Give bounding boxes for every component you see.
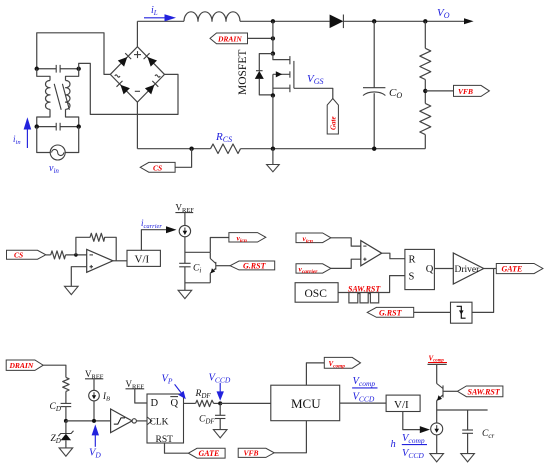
tag CS top (to sense rail) bbox=[140, 162, 175, 172]
wire V/I 2 to current source arrow bbox=[403, 412, 421, 430]
wire CX1 right node to bridge right vertex (under bridge) bbox=[79, 63, 178, 114]
tag Vcomp (output top) bbox=[324, 357, 360, 369]
node divider top bbox=[423, 19, 427, 23]
node mosfet source bbox=[271, 93, 275, 97]
resistor RCS bbox=[211, 144, 241, 154]
wire AC top loop to bridge left vertex bbox=[37, 33, 111, 75]
wire Vcomp rail to transistor bbox=[436, 364, 438, 383]
block RS latch bbox=[405, 249, 435, 289]
driver buffer bbox=[453, 253, 483, 284]
diode D boost bbox=[330, 15, 344, 29]
tag CS middle (input) bbox=[7, 250, 46, 259]
svg-text:CS: CS bbox=[14, 251, 23, 260]
svg-text:D: D bbox=[151, 398, 159, 409]
bridge diode top-right bbox=[144, 53, 157, 66]
node drain tag junction bbox=[271, 36, 275, 40]
bridge diode bottom-right bbox=[145, 81, 158, 95]
wire vcarrier to comparator plus bbox=[331, 259, 361, 268]
svg-text:VFB: VFB bbox=[244, 449, 259, 458]
svg-text:V/I: V/I bbox=[135, 254, 150, 266]
AC source vin bbox=[50, 145, 65, 160]
wire gate to one-shot bbox=[472, 269, 494, 313]
tag SAW.RST (input) bbox=[457, 386, 503, 397]
wire VREF to D input bbox=[135, 389, 147, 403]
wire DRAIN tag to drain bbox=[248, 37, 273, 39]
svg-text:Driver: Driver bbox=[455, 265, 481, 275]
capacitor CX1 (X-cap top) bbox=[37, 65, 79, 73]
node source bottom bbox=[271, 147, 275, 151]
node divider mid bbox=[423, 89, 427, 93]
wire Q to driver bbox=[434, 268, 453, 270]
wire V/I up to icarrier arrow bbox=[141, 230, 167, 251]
svg-text:SAW.RST: SAW.RST bbox=[348, 284, 381, 293]
transistor Q saw reset bbox=[437, 384, 443, 423]
wire Qbar to RDF bbox=[184, 402, 196, 404]
ground current source bbox=[430, 454, 444, 462]
node CO top bbox=[372, 19, 376, 23]
rail VREF (D input) bbox=[126, 379, 145, 391]
arrowhead VO bbox=[464, 18, 474, 24]
mosfet M channel and gate bbox=[273, 54, 294, 96]
wire VD node rail bbox=[66, 420, 111, 422]
svg-text:MCU: MCU bbox=[291, 396, 321, 411]
rail VREF (IB) bbox=[85, 369, 104, 381]
node left of CX2 bbox=[35, 124, 39, 128]
node VD bbox=[92, 419, 96, 423]
node CO bottom bbox=[372, 147, 376, 151]
zener ZD bbox=[58, 421, 73, 448]
tag GATE (output) bbox=[496, 264, 543, 274]
ground ZD bbox=[59, 448, 73, 456]
wire op-amp plus input to ground bbox=[71, 267, 86, 287]
tag DRAIN bottom (input) bbox=[6, 360, 43, 370]
transistor Q discharge (reset) bbox=[210, 252, 216, 282]
bridge tilde right bbox=[155, 75, 160, 77]
node drain top bbox=[271, 19, 275, 23]
node right of CX2 bbox=[77, 124, 81, 128]
svg-text:Gate: Gate bbox=[330, 116, 338, 130]
resistor R lower divider bbox=[420, 103, 431, 148]
wire RD to CD bbox=[65, 391, 67, 403]
bridge plus mark bbox=[134, 51, 141, 58]
wire OSC to S input bbox=[338, 276, 405, 293]
wire vicn branch bbox=[210, 238, 229, 253]
wire CS stub bbox=[175, 149, 192, 168]
node right of CX1 bbox=[77, 67, 81, 71]
wire Ccr rail bbox=[437, 409, 488, 411]
svg-text:G.RST: G.RST bbox=[379, 308, 403, 317]
tag vcarrier bbox=[296, 264, 331, 275]
capacitor CO bbox=[363, 21, 385, 148]
svg-text:GATE: GATE bbox=[502, 265, 523, 274]
node VD left bbox=[64, 419, 68, 423]
wire CX2 to AC source bbox=[37, 127, 79, 153]
wire bridge top vertex up bbox=[136, 21, 138, 46]
node feedback junction bbox=[74, 253, 78, 257]
arrow VD bbox=[92, 424, 99, 446]
svg-text:CS: CS bbox=[153, 163, 162, 172]
wire RDF to node bbox=[214, 402, 221, 404]
capacitor Ccr bbox=[462, 410, 473, 454]
svg-text:DRAIN: DRAIN bbox=[217, 35, 242, 44]
wire base to SAW.RST tag bbox=[443, 390, 457, 392]
wire VFB to MCU bottom bbox=[274, 421, 306, 453]
wire node A to discharge transistor bbox=[185, 251, 210, 253]
ground Ccr bbox=[461, 454, 475, 462]
node CS junction bbox=[189, 147, 193, 151]
arrow iin bbox=[24, 117, 32, 148]
tag VFB top bbox=[454, 85, 490, 96]
block OSC bbox=[295, 283, 338, 303]
svg-text:MOSFET: MOSFET bbox=[237, 50, 249, 95]
wire current source to ground bbox=[436, 435, 438, 454]
svg-text:OSC: OSC bbox=[305, 288, 328, 300]
op-amp U1 current sense bbox=[87, 249, 113, 272]
one-shot block bbox=[451, 302, 473, 323]
svg-text:G.RST: G.RST bbox=[243, 262, 267, 271]
arrow iL bbox=[144, 14, 176, 21]
wire gate lead bbox=[294, 88, 333, 98]
tag vicn (comparator input) bbox=[296, 233, 331, 245]
arrow VCCD bbox=[217, 383, 224, 401]
wire current source to node A bbox=[184, 237, 186, 263]
rail Vcomp (red) bbox=[428, 354, 448, 364]
wire bridge bottom vertex down bbox=[136, 102, 138, 149]
block MCU bbox=[271, 385, 340, 421]
resistor RDF bbox=[196, 400, 214, 406]
wire VREF to IB source bbox=[93, 379, 95, 391]
svg-text:GATE: GATE bbox=[199, 449, 220, 458]
node VCCD bbox=[218, 401, 222, 405]
wire op-amp output to V/I bbox=[113, 260, 127, 262]
wire RCS to divider bottom bbox=[241, 148, 426, 150]
wire top rail left of inductor bbox=[137, 20, 184, 22]
bridge tilde left bbox=[115, 75, 120, 77]
wire drain vertical bbox=[272, 21, 274, 53]
tag G.RST (input, left) bbox=[230, 261, 275, 271]
svg-text:R: R bbox=[409, 254, 416, 265]
current source I charge bbox=[179, 225, 190, 236]
ground main power bbox=[267, 149, 280, 172]
capacitor CDF bbox=[215, 403, 225, 429]
rail VREF (Ci charger) bbox=[175, 203, 194, 215]
wire sense rail bottom bbox=[137, 148, 210, 150]
capacitor Ci bbox=[179, 263, 190, 290]
tag DRAIN top bbox=[210, 33, 248, 44]
wire MCU top to Vcomp tag bbox=[306, 363, 324, 385]
svg-text:V/I: V/I bbox=[394, 399, 409, 411]
current source I reset (hV) bbox=[431, 423, 443, 435]
svg-text:SAW.RST: SAW.RST bbox=[468, 388, 501, 397]
bridge diode bottom-left bbox=[117, 81, 130, 95]
tag G.RST (output, middle right) bbox=[367, 307, 414, 317]
resistor Ri (op-amp input) bbox=[51, 251, 66, 259]
svg-text:S: S bbox=[409, 271, 415, 282]
tag VFB bottom (input) bbox=[238, 448, 274, 457]
wire source down to sense rail bbox=[272, 95, 274, 148]
wire CS tag to input resistor bbox=[46, 254, 51, 256]
svg-text:Q: Q bbox=[426, 264, 434, 275]
ground Ci bbox=[178, 290, 192, 298]
mosfet body diode bbox=[255, 54, 273, 95]
tag GATE (input bottom) bbox=[188, 448, 225, 458]
label fraction Vcomp/VCCD bbox=[352, 376, 377, 404]
wire node to MCU bbox=[220, 402, 271, 404]
resistor Rf feedback bbox=[76, 233, 116, 260]
wire RST to GATE tag bbox=[165, 443, 189, 453]
wire driver to GATE tag bbox=[484, 268, 497, 270]
wire IB to VD node bbox=[93, 401, 95, 421]
ground op-amp bbox=[65, 286, 79, 294]
resistor R upper divider bbox=[420, 21, 431, 103]
arrow VP bbox=[175, 384, 186, 399]
svg-text:DRAIN: DRAIN bbox=[9, 361, 34, 370]
svg-text:h: h bbox=[391, 439, 396, 450]
wire node to VFB tag bbox=[425, 90, 453, 92]
common-mode choke windings bbox=[37, 69, 79, 127]
ground CDF bbox=[213, 430, 227, 438]
bridge rectifier diamond bbox=[110, 47, 164, 102]
wire comparator to R input bbox=[382, 253, 405, 259]
capacitor CD bbox=[61, 403, 72, 421]
block DFF bbox=[147, 394, 184, 445]
block V/I converter 1 bbox=[127, 250, 160, 266]
node left of CX1 bbox=[35, 67, 39, 71]
wire schmitt to CLK bbox=[136, 420, 147, 422]
inductor L (boost) bbox=[184, 12, 240, 21]
wire transistor base to G.RST tag bbox=[216, 265, 230, 267]
pulse train saw reset bbox=[349, 293, 379, 303]
bridge diode top-left bbox=[118, 53, 131, 66]
capacitor CX2 (X-cap bottom) bbox=[37, 123, 79, 131]
arrowhead hV bbox=[420, 426, 430, 433]
current source IB bbox=[89, 390, 100, 401]
wire one-shot to G.RST tag bbox=[414, 311, 451, 313]
label h fraction bbox=[391, 433, 428, 460]
bridge minus mark bbox=[135, 90, 140, 92]
tag vicn (output) bbox=[229, 233, 266, 245]
tag Gate (vertical) bbox=[327, 99, 338, 135]
wire transistor emitter to Ci bottom bbox=[185, 282, 210, 284]
mosfet M drain node bbox=[271, 51, 275, 55]
schmitt buffer U3 bbox=[111, 409, 137, 433]
wire VREF to current source bbox=[184, 213, 186, 226]
svg-text:Q: Q bbox=[171, 398, 179, 409]
wire vicn to comparator minus bbox=[331, 238, 361, 246]
resistor RD (sense) bbox=[63, 377, 69, 391]
choke core diagonal lines bbox=[54, 84, 69, 110]
svg-text:VFB: VFB bbox=[458, 87, 473, 96]
wire inductor to diode bbox=[240, 20, 330, 22]
block V/I converter 2 bbox=[386, 395, 420, 411]
wire diode to VO arrow bbox=[343, 20, 468, 22]
wire DRAIN tag to RD bbox=[43, 365, 66, 377]
comparator U2 bbox=[361, 241, 382, 266]
wire resistor to op-amp inverting input bbox=[66, 254, 87, 256]
svg-text:CLK: CLK bbox=[150, 417, 169, 427]
arrowhead icarrier bbox=[166, 226, 177, 233]
wire MCU to V/I 2 bbox=[340, 402, 386, 404]
